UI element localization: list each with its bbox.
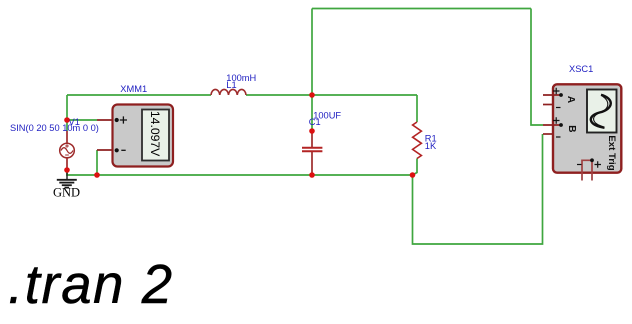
junction node multimeter minus bbox=[94, 172, 100, 178]
wire main top rail left segment bbox=[67, 94, 211, 96]
value label SIN(0 20 50 10m 0 0) bbox=[10, 123, 99, 133]
label L1 bbox=[226, 80, 236, 90]
svg-text:XSC1: XSC1 bbox=[569, 64, 593, 74]
scope ext trig pin bbox=[577, 158, 601, 180]
scope channel B pins bbox=[543, 117, 563, 137]
oscilloscope XSC1 bbox=[553, 84, 621, 172]
svg-text:1K: 1K bbox=[425, 141, 437, 151]
wire multimeter minus drop bbox=[96, 150, 98, 175]
svg-text:.tran 2: .tran 2 bbox=[8, 254, 174, 315]
wire V1 top vertical bbox=[66, 95, 68, 131]
label C1 bbox=[309, 117, 321, 127]
junction node C1 pin bbox=[309, 128, 315, 134]
wire R1 bottom lead bbox=[413, 159, 418, 176]
scope label B bbox=[566, 125, 577, 132]
svg-text:SIN(0 20 50 10m 0 0): SIN(0 20 50 10m 0 0) bbox=[10, 123, 99, 133]
wire C1 top vertical bbox=[311, 95, 313, 132]
label XMM1 bbox=[120, 84, 147, 94]
wire main top rail right segment bbox=[246, 94, 417, 96]
label XSC1 bbox=[569, 64, 593, 74]
spice directive .tran 2 bbox=[8, 254, 174, 315]
value label 1K bbox=[425, 141, 437, 151]
value label 100UF bbox=[313, 110, 341, 120]
wire top loop right vertical bbox=[531, 9, 543, 126]
junction node top rail / C1 bbox=[309, 92, 315, 98]
junction node V1 bottom bbox=[64, 167, 70, 173]
inductor L1 bbox=[211, 89, 246, 95]
svg-text:XMM1: XMM1 bbox=[120, 84, 147, 94]
voltage source V1 bbox=[60, 131, 75, 170]
wire R1 top vertical bbox=[416, 95, 418, 122]
scope Ext Trig label bbox=[606, 135, 617, 170]
junction node C1 bottom bbox=[309, 172, 315, 178]
capacitor C1 bbox=[302, 132, 322, 175]
label V1 bbox=[69, 117, 80, 127]
ground bbox=[57, 169, 77, 188]
wire top loop left vertical to node bbox=[311, 9, 313, 96]
junction node R1 bottom bbox=[410, 172, 416, 178]
svg-text:Ext Trig: Ext Trig bbox=[606, 135, 617, 170]
scope label A bbox=[565, 96, 576, 103]
svg-text:L1: L1 bbox=[226, 80, 236, 90]
svg-text:B: B bbox=[566, 125, 577, 132]
svg-text:A: A bbox=[565, 96, 576, 103]
wire bottom loop bbox=[413, 134, 543, 244]
svg-text:C1: C1 bbox=[309, 117, 321, 127]
svg-text:14.097V: 14.097V bbox=[148, 111, 162, 157]
resistor R1 bbox=[413, 122, 422, 159]
scope channel A pins bbox=[543, 88, 563, 108]
wire bottom rail bbox=[67, 169, 412, 175]
svg-text:GND: GND bbox=[53, 186, 80, 200]
label R1 bbox=[425, 134, 437, 144]
wire top loop horizontal bbox=[312, 8, 531, 10]
wire node to multimeter plus bbox=[67, 119, 97, 121]
junction node V1 top bbox=[64, 117, 70, 123]
multimeter XMM1 bbox=[97, 105, 173, 167]
value label 100mH bbox=[226, 73, 256, 83]
label GND bbox=[53, 186, 80, 200]
